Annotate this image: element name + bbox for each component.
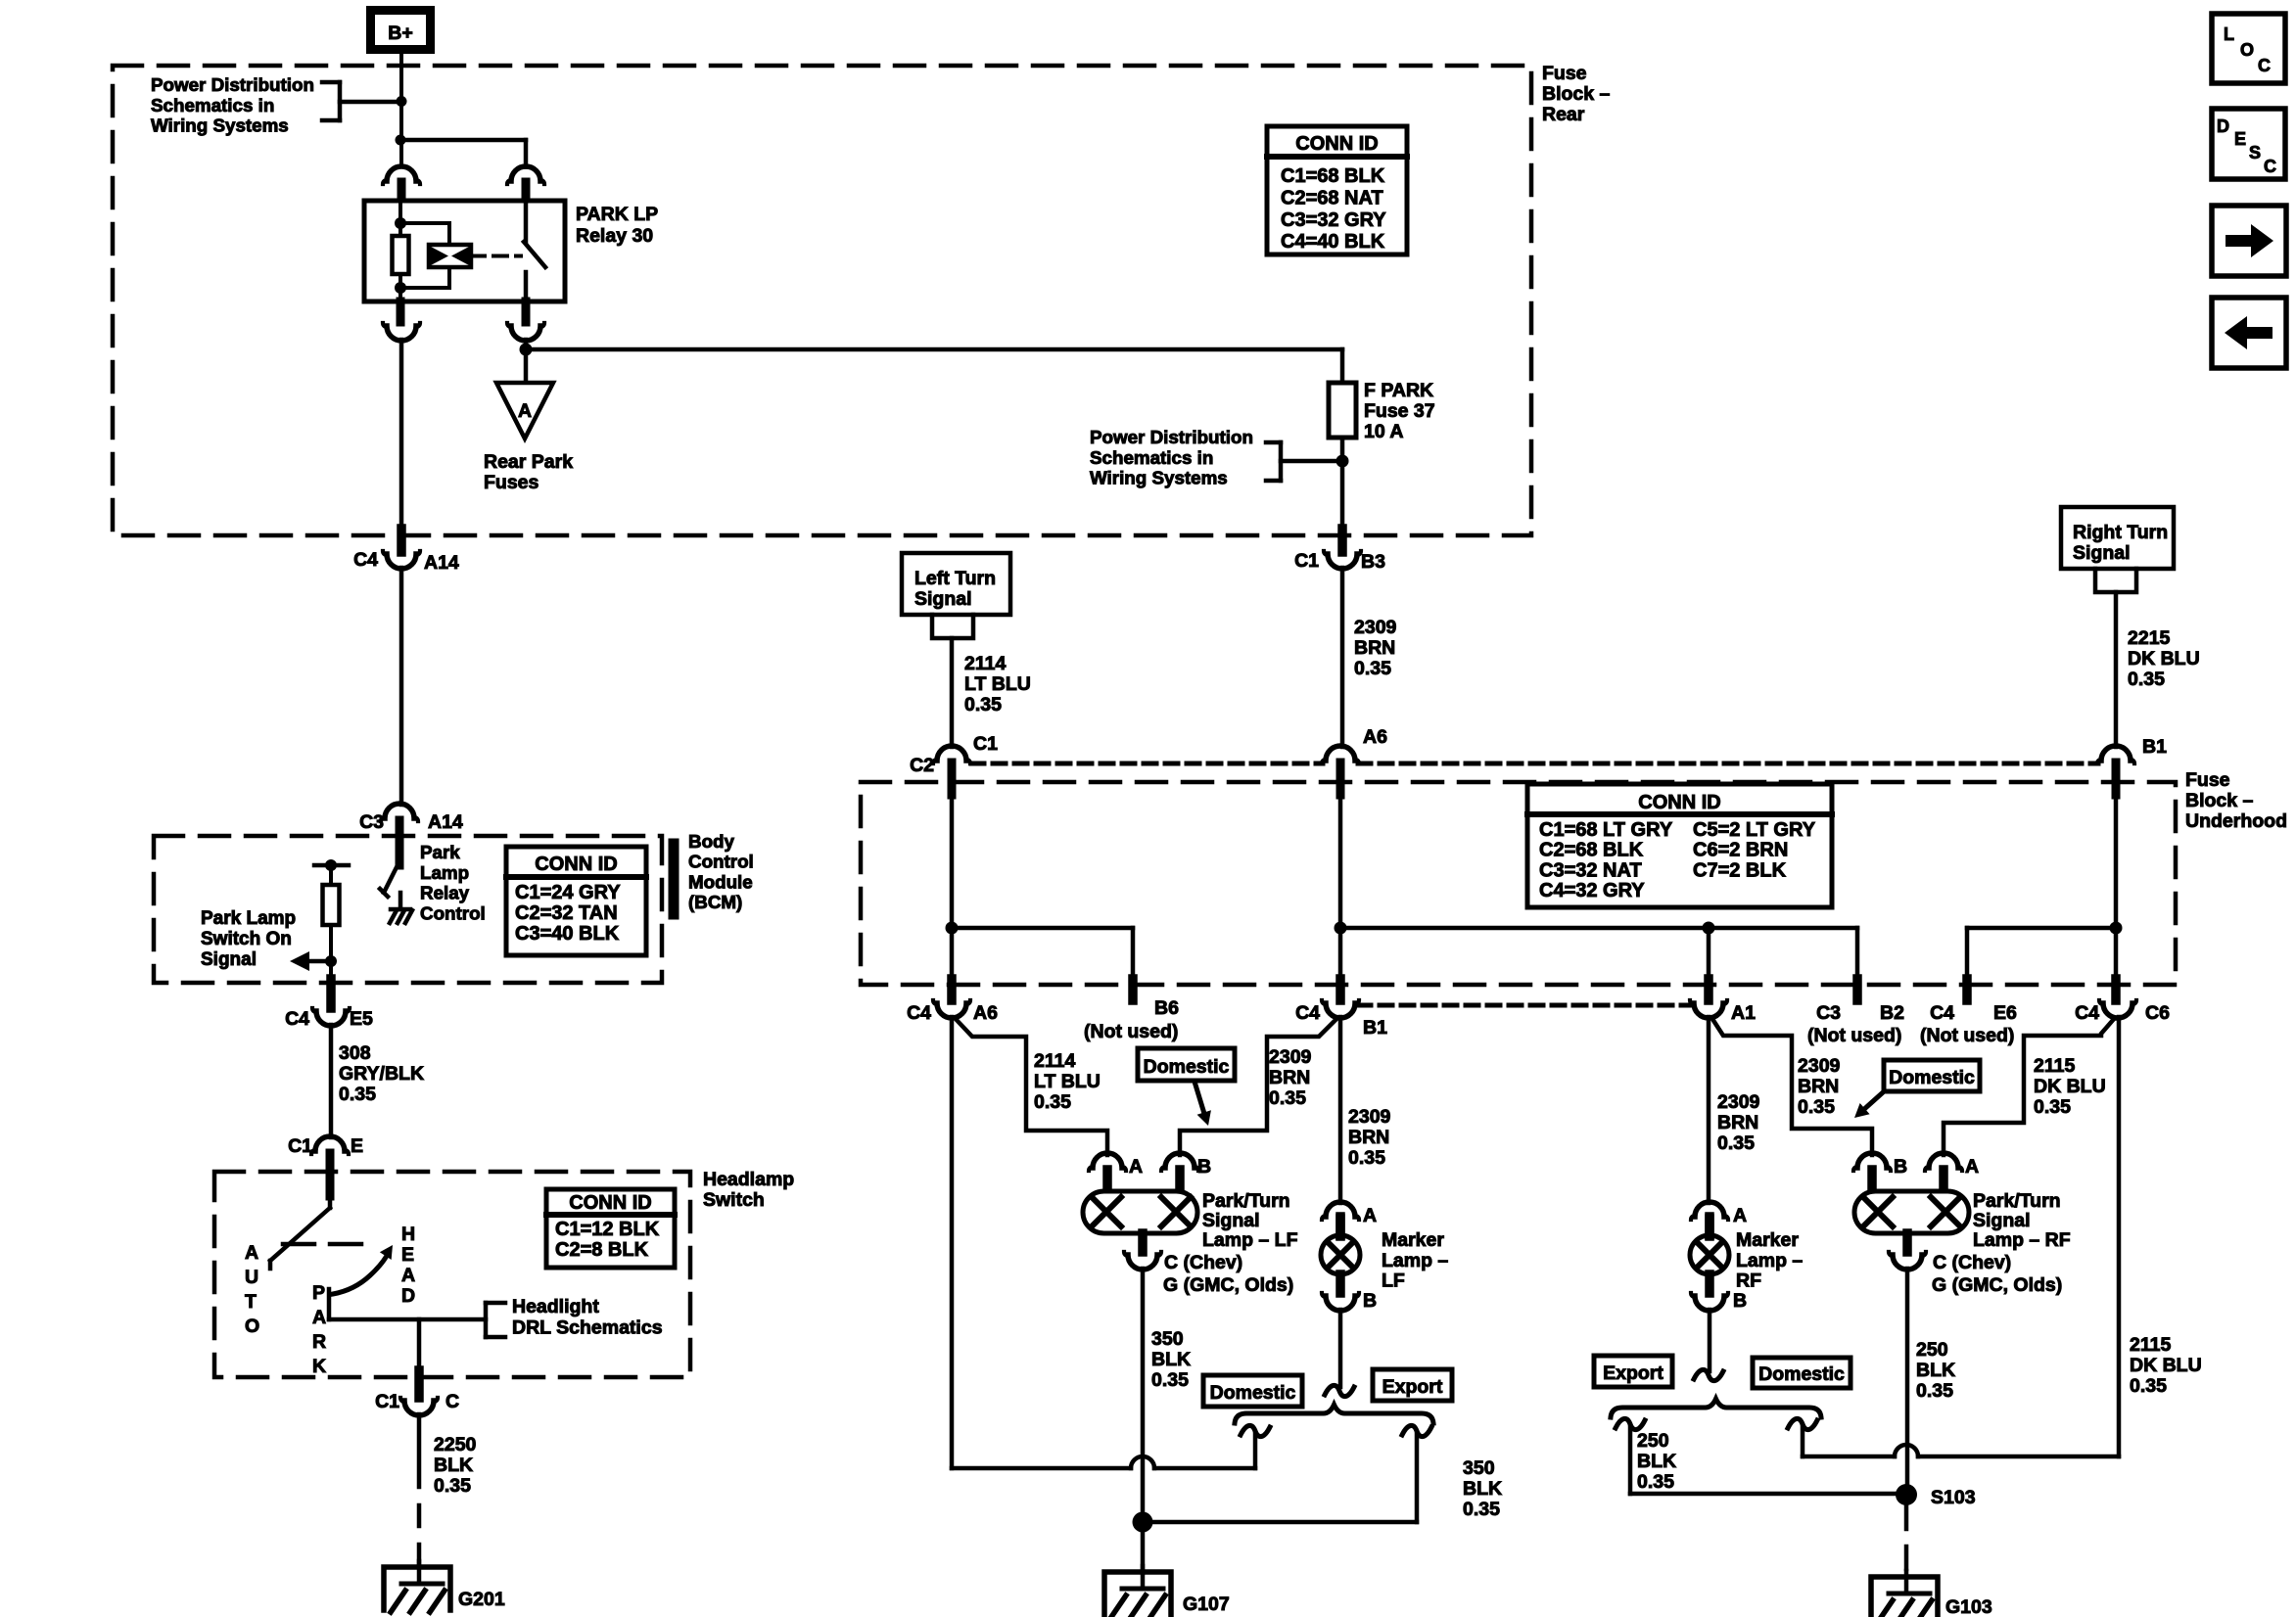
connector arc - relay pin 3 bottom [383, 301, 420, 341]
svg-text:Fuse 37: Fuse 37 [1364, 400, 1435, 422]
wire label 2115 DK BLU 0.35 (to lamp) [2034, 1055, 2106, 1118]
connector C1 C [375, 1370, 459, 1415]
wire dashed to G201 [417, 1505, 422, 1567]
wire branch B1 to lamp B terminal [1180, 1019, 1336, 1155]
wire branch A6 to lamp A terminal [956, 1019, 1107, 1155]
svg-text:C1: C1 [973, 733, 998, 755]
svg-text:Park/Turn: Park/Turn [1202, 1190, 1290, 1212]
wire label 2309 BRN 0.35 (to LF lamp B) [1269, 1046, 1312, 1109]
wire 2114 LT BLU long down (left) [950, 1017, 955, 1468]
svg-text:DK BLU: DK BLU [2034, 1076, 2106, 1097]
svg-text:BLK: BLK [1916, 1360, 1955, 1381]
callout box Domestic (LF park feed) [1138, 1048, 1235, 1081]
svg-text:BLK: BLK [1463, 1478, 1502, 1500]
callout box Export (RF ground option) [1594, 1356, 1672, 1387]
svg-text:RF: RF [1736, 1270, 1761, 1292]
ground G103 [1871, 1571, 1992, 1617]
svg-text:Signal: Signal [1202, 1210, 1260, 1231]
callout box Domestic (LF ground option) [1203, 1375, 1302, 1407]
svg-text:0.35: 0.35 [1798, 1096, 1835, 1118]
wire label 250 BLK 0.35 (RF) [1916, 1339, 1955, 1402]
svg-text:D: D [2217, 116, 2229, 136]
svg-text:A14: A14 [424, 552, 459, 574]
svg-text:(Not used): (Not used) [1084, 1021, 1178, 1042]
svg-text:C2=8 BLK: C2=8 BLK [555, 1239, 649, 1261]
svg-text:2309: 2309 [1354, 617, 1397, 638]
ground G201 [384, 1561, 505, 1612]
svg-text:Wiring Systems: Wiring Systems [1090, 468, 1228, 488]
svg-text:P: P [312, 1282, 325, 1304]
Body Control Module dashed box [154, 836, 662, 983]
svg-text:C3=32 NAT: C3=32 NAT [1539, 859, 1642, 881]
connector terminal B - RF park/turn lamp [1853, 1153, 1907, 1192]
bus to B6 not used [952, 928, 1133, 981]
dotted connector line B1-A1 [1358, 1003, 1693, 1008]
svg-text:(BCM): (BCM) [688, 892, 742, 912]
svg-text:2114: 2114 [1034, 1050, 1075, 1072]
relay winding indicator box [429, 245, 471, 267]
wire label 2309 BRN 0.35 (upper) [1354, 617, 1397, 679]
svg-text:C1=12 BLK: C1=12 BLK [555, 1219, 660, 1240]
svg-text:C (Chev): C (Chev) [1933, 1252, 2011, 1273]
lamp Marker Lamp - LF [1321, 1217, 1360, 1293]
bus to E6 [1967, 928, 2116, 981]
svg-text:C3: C3 [1816, 1002, 1841, 1024]
bus B1 to A1 and B2 [1340, 922, 1857, 982]
callout box Domestic (RF park feed) [1884, 1060, 1980, 1091]
svg-text:Domestic: Domestic [1144, 1056, 1230, 1078]
svg-text:Block –: Block – [1542, 83, 1611, 105]
connector terminal A - LF park/turn lamp [1089, 1153, 1143, 1192]
svg-text:Lamp –: Lamp – [1736, 1250, 1803, 1271]
svg-text:Lamp –: Lamp – [1382, 1250, 1448, 1271]
label C3 B2 Not used [1807, 1002, 1904, 1046]
label Park Lamp Switch On Signal [201, 908, 296, 970]
svg-text:C2: C2 [910, 755, 934, 776]
connector arc - relay pin 1 top [383, 166, 420, 203]
wire 2309 BRN fuse block rear to underhood [1340, 568, 1345, 747]
option hook Export (LF) [1402, 1425, 1431, 1522]
svg-text:C (Chev): C (Chev) [1164, 1252, 1242, 1273]
svg-text:Fuse: Fuse [1542, 63, 1587, 84]
svg-text:E: E [351, 1135, 363, 1157]
label Body Control Module BCM [674, 831, 754, 914]
label Park/Turn Signal Lamp - LF [1202, 1190, 1298, 1251]
svg-text:Switch: Switch [703, 1189, 765, 1211]
svg-text:0.35: 0.35 [2034, 1096, 2071, 1118]
svg-text:LT BLU: LT BLU [964, 673, 1031, 695]
option hook Domestic (RF) [1788, 1418, 1817, 1456]
wire label 2114 LT BLU 0.35 (upper) [964, 653, 1031, 716]
wire PARK contact to output [329, 1289, 486, 1319]
wire right turn leg down [2110, 795, 2123, 981]
svg-text:0.35: 0.35 [1717, 1132, 1755, 1154]
wire to C4 E5 [329, 961, 333, 983]
svg-text:Lamp: Lamp [420, 862, 469, 883]
svg-text:Switch On: Switch On [201, 929, 292, 949]
svg-text:Domestic: Domestic [1889, 1067, 1975, 1088]
connector C1 E [288, 1135, 363, 1196]
svg-text:Signal: Signal [2073, 542, 2131, 564]
svg-text:Rear: Rear [1542, 104, 1585, 125]
lamp Park/Turn Signal Lamp - LF [1083, 1191, 1197, 1233]
svg-text:A: A [312, 1307, 326, 1328]
wire 350 BLK LF lamp ground [1141, 1269, 1146, 1516]
svg-text:DK BLU: DK BLU [2130, 1355, 2202, 1376]
connector arc - relay pin 5 bottom [507, 301, 544, 341]
reference bracket Headlight DRL Schematics [486, 1303, 505, 1337]
wire label 2309 BRN 0.35 (to RF lamp B) [1798, 1055, 1841, 1118]
terminal stub E6 [1962, 979, 1972, 1000]
resistor (BCM pull-up) [323, 885, 340, 925]
wire branch to relay pin 2 [400, 140, 526, 167]
wire 2309 BRN to RF marker lamp [1707, 1017, 1711, 1203]
svg-text:C4: C4 [2075, 1002, 2099, 1024]
svg-text:BRN: BRN [1717, 1112, 1758, 1133]
svg-text:B: B [1363, 1290, 1377, 1312]
Headlamp Switch dashed box [214, 1172, 690, 1377]
label Headlight DRL Schematics [512, 1296, 663, 1339]
label Rear Park Fuses [484, 451, 573, 493]
wire right turn signal down [2114, 592, 2119, 747]
svg-text:A: A [1129, 1156, 1143, 1178]
svg-text:F PARK: F PARK [1364, 380, 1433, 401]
svg-text:Control: Control [688, 852, 754, 872]
svg-text:Lamp – LF: Lamp – LF [1202, 1229, 1298, 1251]
wire label 350 BLK 0.35 (LF) [1151, 1328, 1191, 1391]
reference note Power Distribution Schematics in Wiring Systems (left) [151, 74, 396, 136]
lamp Park/Turn Signal Lamp - RF [1854, 1191, 1969, 1233]
wire LF marker ground to option brace [1338, 1310, 1343, 1387]
connector terminal A - LF marker lamp [1322, 1202, 1377, 1236]
wire B1 leg down [1335, 795, 1347, 981]
wire 250 BLK RF lamp ground [1905, 1269, 1910, 1488]
wire branch A1 to RF lamp B terminal [1712, 1019, 1872, 1155]
source box Left Turn Signal [902, 553, 1010, 615]
connector terminal C - LF lamp ground [1124, 1233, 1293, 1296]
connector bracket below Left Turn Signal [932, 615, 973, 638]
svg-text:CONN ID: CONN ID [569, 1192, 651, 1214]
callout box Export (LF ground option) [1373, 1369, 1452, 1401]
svg-text:Export: Export [1603, 1363, 1663, 1384]
option brace (LF) [1235, 1405, 1433, 1423]
connector B1 (fuse block underhood) [2097, 736, 2167, 795]
svg-text:A: A [1363, 1205, 1377, 1226]
label Fuse Block - Rear [1542, 63, 1611, 125]
option hook Export (RF) [1616, 1418, 1645, 1494]
svg-text:C4=40 BLK: C4=40 BLK [1281, 231, 1385, 253]
svg-text:S: S [2249, 143, 2261, 162]
svg-text:U: U [245, 1267, 258, 1288]
connector terminal C - RF lamp ground [1889, 1233, 2062, 1296]
wire 2250 BLK [417, 1414, 422, 1487]
wire label 2250 BLK 0.35 [434, 1434, 477, 1497]
svg-text:O: O [245, 1316, 259, 1337]
svg-text:0.35: 0.35 [434, 1475, 471, 1497]
wire gray to BCM park lamp relay control [399, 568, 404, 805]
connector A6 (fuse block underhood) [1322, 726, 1387, 795]
svg-text:10 A: 10 A [1364, 421, 1403, 442]
connector C3 A14 [359, 804, 463, 865]
switch travel curved arrow [333, 1245, 393, 1294]
connector C4 C6 [2075, 979, 2170, 1024]
label F PARK Fuse 37 10A [1364, 380, 1435, 442]
Fuse Block - Underhood dashed box [861, 782, 2176, 985]
svg-text:G201: G201 [458, 1589, 505, 1610]
svg-text:A: A [245, 1242, 258, 1264]
wire label 250 BLK 0.35 (export leg) [1637, 1430, 1676, 1493]
svg-text:C6: C6 [2145, 1002, 2170, 1024]
svg-text:A: A [518, 400, 532, 422]
label PARK LP Relay 30 [576, 204, 658, 247]
svg-text:2115: 2115 [2130, 1334, 2171, 1356]
connector C4 E5 [285, 979, 373, 1030]
svg-text:Signal: Signal [914, 588, 972, 610]
Fuse Block - Rear dashed box [113, 66, 1531, 535]
svg-text:BRN: BRN [1798, 1076, 1839, 1097]
svg-text:R: R [312, 1331, 326, 1353]
CONN ID table - BCM [506, 847, 646, 955]
wire 308 GRY/BLK to headlamp switch [329, 1025, 334, 1137]
wire label 2309 BRN 0.35 (to LF marker) [1348, 1106, 1391, 1169]
CONN ID table - Fuse Block Underhood [1527, 784, 1832, 907]
svg-text:Underhood: Underhood [2185, 810, 2287, 832]
relay PARK LP Relay 30 box [364, 201, 565, 301]
internal park lamp switch-on signal sensing [290, 859, 349, 971]
svg-text:S103: S103 [1931, 1487, 1976, 1508]
svg-text:Fuse: Fuse [2185, 769, 2230, 791]
svg-text:A6: A6 [973, 1002, 998, 1024]
svg-text:0.35: 0.35 [964, 694, 1002, 716]
svg-text:O: O [2240, 40, 2254, 60]
svg-text:Fuses: Fuses [484, 472, 539, 493]
svg-text:B2: B2 [1880, 1002, 1904, 1024]
nav box DESC [2212, 109, 2285, 179]
connector terminal A - RF marker lamp [1691, 1202, 1747, 1236]
wire fuse to C1 B3 [1336, 438, 1349, 534]
wire break squiggle (RF marker) [1694, 1369, 1723, 1380]
connector terminal B - LF park/turn lamp [1161, 1153, 1211, 1192]
svg-text:Power Distribution: Power Distribution [151, 74, 314, 95]
svg-text:A: A [1733, 1205, 1747, 1226]
svg-text:Headlamp: Headlamp [703, 1169, 794, 1190]
svg-text:C1: C1 [288, 1135, 312, 1157]
switch park lamp relay control driver [380, 865, 398, 897]
svg-text:C1: C1 [375, 1391, 399, 1412]
connector A1 [1690, 979, 1756, 1024]
wire label 2114 LT BLU 0.35 (to lamp) [1034, 1050, 1101, 1113]
connector arc - relay pin 2 top [507, 166, 544, 203]
terminal stub B6 [1128, 979, 1138, 1000]
wire 2115 DK BLU long down (right) [2117, 1017, 2122, 1456]
label HEAD (switch position) [401, 1224, 415, 1307]
svg-text:LT BLU: LT BLU [1034, 1071, 1101, 1092]
svg-text:Park Lamp: Park Lamp [201, 908, 296, 929]
label PARK (switch position) [312, 1282, 326, 1377]
connector terminal A - RF park/turn lamp [1925, 1153, 1979, 1192]
svg-text:H: H [401, 1224, 415, 1245]
connector C2 C1 [910, 733, 998, 795]
svg-text:C3=40 BLK: C3=40 BLK [515, 923, 620, 945]
svg-text:B6: B6 [1154, 997, 1179, 1019]
svg-text:Marker: Marker [1736, 1229, 1799, 1251]
svg-text:0.35: 0.35 [1463, 1499, 1500, 1520]
switch position dashed line [283, 1242, 365, 1247]
relay switch contacts and blade [524, 203, 545, 300]
svg-text:Park/Turn: Park/Turn [1973, 1190, 2061, 1212]
svg-text:2309: 2309 [1348, 1106, 1391, 1128]
wire relay to connector C4 A14 [399, 340, 404, 534]
wire B+ to PARK LP relay pin 1 [396, 54, 407, 167]
svg-text:Left Turn: Left Turn [914, 568, 996, 589]
svg-text:2114: 2114 [964, 653, 1006, 674]
svg-text:C4: C4 [353, 549, 378, 571]
svg-text:0.35: 0.35 [1269, 1087, 1306, 1109]
wire label 2115 DK BLU 0.35 (lower right) [2130, 1334, 2202, 1397]
terminal stub B2 [1852, 979, 1862, 1000]
svg-text:CONN ID: CONN ID [1638, 792, 1720, 813]
svg-text:Export: Export [1382, 1376, 1443, 1398]
label Park/Turn Signal Lamp - RF [1973, 1190, 2071, 1251]
wire dashed to G103 [1904, 1506, 1909, 1573]
svg-text:2309: 2309 [1717, 1091, 1760, 1113]
arrow from Domestic callout (RF) [1854, 1093, 1882, 1118]
svg-text:D: D [401, 1285, 415, 1307]
wire label 350 BLK 0.35 (export leg) [1463, 1457, 1502, 1520]
headlamp switch blade (E to AUTO) [270, 1196, 330, 1269]
svg-text:BLK: BLK [1637, 1451, 1676, 1472]
nav box left arrow [2212, 298, 2286, 368]
svg-text:Park: Park [420, 842, 460, 862]
label AUTO (switch position) [245, 1242, 259, 1337]
svg-text:C: C [2264, 157, 2276, 176]
svg-text:2215: 2215 [2128, 627, 2171, 649]
svg-text:Power Distribution: Power Distribution [1090, 427, 1253, 447]
ground G107 [1104, 1566, 1230, 1617]
svg-text:DRL Schematics: DRL Schematics [512, 1317, 663, 1339]
wire LF lamp return to domestic hook (hops 350 BLK) [952, 1456, 1255, 1468]
ground symbol (BCM internal) [390, 893, 412, 923]
label B6 Not used [1084, 997, 1179, 1042]
svg-text:B1: B1 [1363, 1017, 1387, 1039]
svg-text:GRY/BLK: GRY/BLK [339, 1063, 424, 1085]
wire relay to F PARK fuse and rear park fuses tap [520, 340, 1343, 383]
svg-text:2250: 2250 [434, 1434, 477, 1455]
source box Right Turn Signal [2061, 507, 2174, 569]
CONN ID table - Headlamp Switch [546, 1189, 675, 1268]
wire LF export leg to ground junction [1143, 1468, 1417, 1522]
svg-text:250: 250 [1637, 1430, 1669, 1452]
svg-text:C7=2 BLK: C7=2 BLK [1693, 859, 1787, 881]
power symbol B+ (battery feed) [371, 11, 431, 50]
svg-text:C: C [2258, 56, 2271, 75]
svg-text:T: T [245, 1291, 257, 1313]
svg-text:0.35: 0.35 [1151, 1369, 1189, 1391]
svg-text:Domestic: Domestic [1758, 1363, 1845, 1385]
svg-text:Relay: Relay [420, 883, 470, 903]
callout box Domestic (RF ground option) [1753, 1358, 1851, 1388]
svg-text:A1: A1 [1731, 1002, 1756, 1024]
svg-text:Block –: Block – [2185, 790, 2254, 811]
svg-text:E: E [401, 1244, 414, 1266]
svg-text:B: B [1894, 1156, 1907, 1178]
svg-text:E: E [2234, 129, 2246, 149]
wire label 2309 BRN 0.35 (to RF marker) [1717, 1091, 1760, 1154]
svg-text:Signal: Signal [1973, 1210, 2031, 1231]
lamp Marker Lamp - RF [1690, 1217, 1729, 1293]
svg-text:A: A [401, 1265, 415, 1286]
label C4 E6 Not used [1920, 1002, 2017, 1046]
connector C4 A6 [907, 979, 998, 1024]
svg-text:A6: A6 [1363, 726, 1387, 748]
svg-text:PARK LP: PARK LP [576, 204, 658, 225]
svg-text:C2=68 NAT: C2=68 NAT [1281, 187, 1383, 208]
label Headlamp Switch [703, 1169, 794, 1211]
svg-text:C1=24 GRY: C1=24 GRY [515, 882, 621, 903]
wire C2 to A6 pin (left leg) [946, 795, 959, 981]
connector bracket below Right Turn Signal [2095, 569, 2136, 592]
wire headlamp switch output down [417, 1319, 422, 1374]
svg-text:C1: C1 [1294, 550, 1319, 572]
svg-text:BLK: BLK [1151, 1349, 1191, 1370]
fuse F PARK Fuse 37 10A [1329, 383, 1356, 438]
svg-text:Headlight: Headlight [512, 1296, 599, 1317]
svg-text:C1=68 LT GRY: C1=68 LT GRY [1539, 819, 1673, 841]
label Marker Lamp - LF [1382, 1229, 1448, 1292]
svg-text:0.35: 0.35 [2128, 669, 2165, 690]
svg-text:C3: C3 [359, 811, 384, 833]
svg-text:Lamp – RF: Lamp – RF [1973, 1229, 2071, 1251]
reference note Power Distribution Schematics in Wiring Systems (right) [1090, 427, 1338, 488]
svg-text:A: A [1965, 1156, 1979, 1178]
wire RF marker ground to option brace [1708, 1310, 1712, 1371]
svg-text:350: 350 [1151, 1328, 1184, 1350]
svg-text:C2=32 TAN: C2=32 TAN [515, 902, 618, 924]
svg-text:CONN ID: CONN ID [1295, 133, 1378, 155]
svg-text:2115: 2115 [2034, 1055, 2075, 1077]
svg-text:L: L [2224, 24, 2234, 44]
svg-text:BRN: BRN [1269, 1067, 1310, 1088]
svg-text:350: 350 [1463, 1457, 1495, 1479]
connector C4 A14 [353, 529, 459, 574]
nav box right arrow [2212, 206, 2286, 276]
svg-text:Module: Module [688, 871, 753, 892]
svg-text:B1: B1 [2142, 736, 2167, 758]
svg-text:2309: 2309 [1269, 1046, 1312, 1068]
svg-text:E6: E6 [1993, 1002, 2017, 1024]
svg-text:Schematics in: Schematics in [1090, 447, 1213, 468]
svg-text:C: C [445, 1391, 459, 1412]
splice S103 [1896, 1484, 1976, 1508]
wire to G107 [1141, 1522, 1146, 1573]
svg-text:B+: B+ [388, 23, 412, 44]
svg-text:C4: C4 [907, 1002, 931, 1024]
svg-text:BRN: BRN [1354, 637, 1395, 659]
svg-text:Body: Body [688, 831, 735, 852]
svg-text:Relay 30: Relay 30 [576, 225, 653, 247]
svg-text:0.35: 0.35 [1916, 1380, 1953, 1402]
nav box LOC [2212, 14, 2285, 83]
svg-text:C4: C4 [1295, 1002, 1320, 1024]
svg-text:Right Turn: Right Turn [2073, 522, 2168, 543]
relay coil branch wires [395, 203, 449, 300]
svg-text:CONN ID: CONN ID [535, 854, 617, 875]
svg-text:C1=68 BLK: C1=68 BLK [1281, 165, 1385, 187]
svg-text:C4=32 GRY: C4=32 GRY [1539, 880, 1645, 901]
wire RF export leg to S103 [1630, 1492, 1896, 1497]
label Marker Lamp - RF [1736, 1229, 1803, 1292]
svg-text:Signal: Signal [201, 949, 257, 970]
